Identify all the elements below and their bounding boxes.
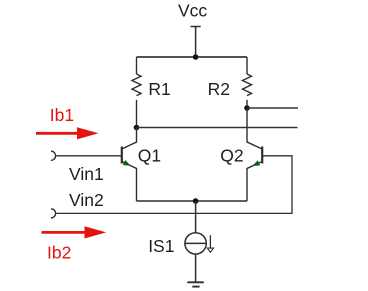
wire output from R2 node (247, 107, 298, 109)
wire Vin2 to Q2 base (56, 156, 292, 214)
transistor Q2 (247, 108, 262, 201)
terminal Vin2 (51, 209, 56, 218)
svg-text:Vin1: Vin1 (69, 164, 104, 184)
junction R1 output node (134, 125, 140, 131)
svg-text:Q2: Q2 (220, 145, 243, 165)
svg-text:Q1: Q1 (138, 145, 161, 165)
wire Vin1 to Q1 base (56, 155, 122, 157)
wire Vcc rail (137, 56, 248, 58)
junction Vcc node (193, 54, 199, 60)
transistor Q1 (122, 128, 137, 202)
wire emitter bus (137, 200, 248, 202)
wire output from R1 node (137, 127, 298, 129)
resistor R2 (243, 57, 252, 108)
junction emitter node (193, 198, 199, 204)
svg-text:Ib2: Ib2 (47, 243, 71, 263)
svg-text:IS1: IS1 (148, 236, 174, 256)
resistor R1 (132, 57, 141, 128)
junction R2 output node (244, 105, 250, 111)
power symbol Vcc (191, 27, 201, 58)
svg-text:Vin2: Vin2 (69, 190, 104, 210)
svg-text:Vcc: Vcc (178, 1, 207, 21)
terminal Vin1 (51, 151, 56, 160)
svg-text:R2: R2 (208, 79, 230, 99)
ground (187, 282, 204, 286)
svg-text:R1: R1 (148, 79, 170, 99)
current arrow Ib2 (42, 226, 107, 238)
svg-text:Ib1: Ib1 (50, 105, 74, 125)
current arrow Ib1 (36, 127, 99, 139)
current source IS1 (185, 201, 214, 282)
